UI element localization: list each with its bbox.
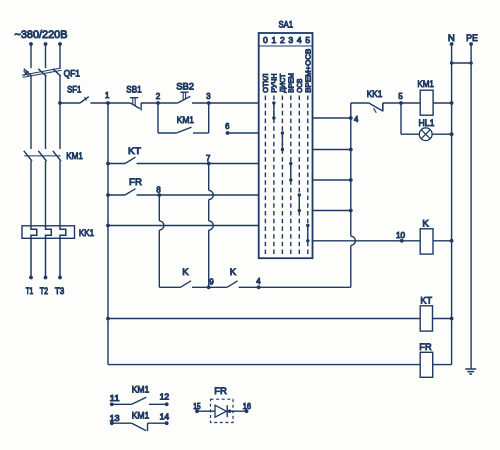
svg-text:SB2: SB2: [176, 82, 194, 93]
svg-text:3: 3: [206, 92, 210, 101]
svg-text:0: 0: [263, 35, 268, 45]
svg-text:5: 5: [305, 35, 310, 45]
svg-text:KM1: KM1: [177, 115, 194, 126]
svg-text:15: 15: [193, 402, 201, 411]
svg-text:QF1: QF1: [64, 68, 80, 79]
svg-text:7: 7: [206, 154, 210, 163]
svg-text:FR: FR: [214, 386, 227, 397]
svg-text:T3: T3: [55, 286, 64, 296]
svg-text:KK1: KK1: [79, 228, 94, 239]
svg-text:11: 11: [110, 394, 120, 403]
svg-text:PE: PE: [466, 33, 478, 44]
svg-text:13: 13: [110, 414, 120, 423]
svg-text:N: N: [448, 33, 455, 44]
svg-text:16: 16: [243, 402, 251, 411]
svg-text:SB1: SB1: [126, 85, 141, 96]
svg-text:ВРЕМ+ОСВ: ВРЕМ+ОСВ: [304, 49, 313, 93]
svg-text:4: 4: [354, 115, 359, 124]
svg-text:K: K: [182, 267, 189, 278]
svg-text:4: 4: [297, 35, 302, 45]
svg-text:9: 9: [209, 277, 213, 286]
svg-text:KT: KT: [420, 296, 432, 307]
svg-text:HL1: HL1: [419, 118, 435, 129]
svg-text:14: 14: [160, 413, 170, 422]
svg-text:10: 10: [396, 231, 406, 240]
svg-text:KK1: KK1: [367, 89, 383, 100]
svg-text:1: 1: [272, 35, 277, 45]
svg-text:K: K: [230, 267, 237, 278]
svg-text:T2: T2: [40, 286, 48, 296]
svg-text:FR: FR: [419, 342, 431, 353]
svg-text:5: 5: [398, 92, 403, 101]
svg-text:4: 4: [256, 277, 261, 286]
svg-text:KM1: KM1: [132, 385, 150, 396]
svg-text:6: 6: [225, 122, 229, 131]
svg-text:KM1: KM1: [66, 151, 83, 162]
svg-text:2: 2: [280, 35, 285, 45]
svg-text:KM1: KM1: [417, 79, 434, 90]
svg-text:2: 2: [156, 92, 160, 101]
svg-text:KM1: KM1: [132, 410, 150, 421]
svg-text:1: 1: [105, 91, 109, 100]
svg-text:8: 8: [156, 185, 160, 194]
svg-text:SF1: SF1: [67, 85, 81, 96]
svg-text:3: 3: [288, 35, 293, 45]
svg-text:K: K: [422, 219, 429, 230]
svg-text:SA1: SA1: [279, 20, 294, 31]
svg-text:~380/220В: ~380/220В: [15, 29, 68, 41]
svg-text:T1: T1: [26, 286, 34, 296]
svg-text:12: 12: [160, 393, 170, 402]
svg-text:KT: KT: [128, 146, 141, 157]
svg-text:FR: FR: [129, 177, 142, 188]
